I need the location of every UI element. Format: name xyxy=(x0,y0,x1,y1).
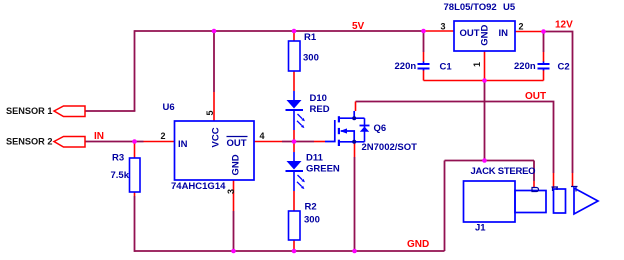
connector SENSOR1 arrow xyxy=(54,106,85,117)
wire U6 pin5 red stub xyxy=(213,92,215,121)
wire R3 top red stub xyxy=(134,142,136,159)
svg-text:OUT: OUT xyxy=(525,91,546,102)
wire jack pin1 drop red xyxy=(533,181,535,187)
wire Q6 source maroon xyxy=(354,157,356,251)
svg-text:300: 300 xyxy=(303,53,319,64)
transistor Q2 gate xyxy=(325,120,335,142)
wire R3 bottom red stub xyxy=(134,192,136,196)
capacitor C2 top plate xyxy=(538,63,550,65)
svg-text:GND: GND xyxy=(480,25,491,46)
wire Q6 drain red stub xyxy=(355,102,357,112)
svg-text:U6: U6 xyxy=(163,102,175,113)
jack pin 1 terminal glyph xyxy=(532,188,539,192)
capacitor C2 bottom plate xyxy=(538,68,550,70)
svg-text:OUT: OUT xyxy=(227,138,247,149)
wire OUT red drop to jack pin2 xyxy=(553,173,555,188)
wire D10 cathode red stub xyxy=(293,130,295,142)
wire D10 anode blue pin xyxy=(293,91,295,100)
wire SENSOR1 horizontal xyxy=(85,110,135,112)
transistor Q6 channel dash 3 xyxy=(338,140,340,146)
transistor Q6 channel dash 1 xyxy=(338,116,340,122)
IC U6 box xyxy=(175,121,255,180)
svg-text:C1: C1 xyxy=(440,62,453,73)
connector SENSOR2 arrow xyxy=(54,137,85,148)
svg-text:J1: J1 xyxy=(475,223,486,234)
jack pin 2 small box xyxy=(554,189,566,213)
wire Q6 gate red stub xyxy=(314,141,325,143)
junction IN at R3 xyxy=(132,139,137,144)
svg-text:SENSOR 1: SENSOR 1 xyxy=(6,106,52,116)
IC U5 regulator box xyxy=(454,21,515,51)
wire GND bottom rail xyxy=(135,250,445,252)
wire C1 column maroon xyxy=(423,31,425,52)
LED D10 cathode bar xyxy=(286,109,304,111)
LED D11 cathode bar xyxy=(286,170,304,172)
svg-text:2: 2 xyxy=(519,22,524,32)
junction GND rail at U6 pin3 xyxy=(231,249,236,254)
junction GND rail at R2 xyxy=(292,249,297,254)
junction 5V at R1 xyxy=(292,29,297,34)
junction GND at jack row xyxy=(482,158,487,163)
svg-text:78L05/TO92: 78L05/TO92 xyxy=(444,2,497,13)
wire R1 bottom red stub xyxy=(293,71,295,91)
resistor R2 xyxy=(289,211,301,240)
svg-text:4: 4 xyxy=(260,131,265,141)
svg-text:5V: 5V xyxy=(352,21,365,32)
transistor Q6 body diode cathode bar xyxy=(360,125,370,127)
junction 12V at C2 xyxy=(541,29,546,34)
transistor Q6 drain lead xyxy=(340,117,365,119)
svg-text:R3: R3 xyxy=(112,153,124,164)
junction Q6 drain dot xyxy=(352,116,356,120)
wire GND left column from jack row xyxy=(444,161,446,252)
capacitor C1 top plate xyxy=(418,63,430,65)
LED D11 light arrow 1 xyxy=(298,175,303,180)
svg-text:U5: U5 xyxy=(503,2,516,13)
wire D11 cathode blue pin xyxy=(293,172,295,191)
wire U6 pin3 GND maroon xyxy=(233,211,235,251)
wire 12V net xyxy=(544,32,573,174)
svg-text:C2: C2 xyxy=(558,62,570,73)
svg-text:300: 300 xyxy=(304,215,320,226)
jack J1 plug xyxy=(515,191,546,213)
capacitor C2 blue stubs xyxy=(543,62,545,71)
wire IN red stub to U6 pin 2 xyxy=(144,141,175,143)
svg-text:220n: 220n xyxy=(514,61,536,72)
wire C2 column maroon xyxy=(543,32,545,53)
junction GND rail at Q6 source xyxy=(352,249,357,254)
wire OUT row maroon mid xyxy=(282,141,314,143)
wire D10 cathode blue pin xyxy=(293,111,295,130)
svg-text:2: 2 xyxy=(161,131,166,141)
svg-text:IN: IN xyxy=(94,131,104,142)
transistor Q6 channel dash 2 xyxy=(338,128,340,134)
junction GND at U5 pin1 xyxy=(482,78,487,83)
LED D11 triangle xyxy=(287,161,302,170)
transistor Q6 body diode line xyxy=(364,118,366,142)
wire U5 pin3 red stub xyxy=(424,30,455,32)
wire U5 pin1 red stub xyxy=(484,51,486,81)
wire GND from pin1 down xyxy=(484,81,486,161)
svg-text:IN: IN xyxy=(499,28,509,39)
wire U5 pin2 red stub xyxy=(515,31,544,33)
svg-text:5: 5 xyxy=(205,110,215,115)
svg-text:2N7002/SOT: 2N7002/SOT xyxy=(362,142,418,153)
svg-text:12V: 12V xyxy=(555,20,573,31)
svg-text:3: 3 xyxy=(441,22,446,32)
wire jack pin1 drop maroon xyxy=(533,161,535,182)
svg-text:D10: D10 xyxy=(310,93,327,104)
wire C2 bottom red stub xyxy=(543,70,545,81)
pin name OUT overline xyxy=(227,136,248,138)
svg-text:SENSOR 2: SENSOR 2 xyxy=(6,137,52,147)
svg-text:D11: D11 xyxy=(306,153,324,164)
junction Q6 source dot xyxy=(352,140,356,144)
wire R2 bottom red stub xyxy=(293,240,295,251)
jack J1 body xyxy=(464,181,516,222)
wire C1 bottom red stub xyxy=(423,70,425,81)
LED D10 light arrow 1 xyxy=(298,114,303,119)
svg-text:220n: 220n xyxy=(395,61,417,72)
wire Q6 source red stub xyxy=(354,143,356,157)
wire GND jack row xyxy=(445,160,535,162)
transistor Q6 body diode triangle xyxy=(360,127,369,132)
wire OUT net xyxy=(356,102,554,174)
wire U6 pin5 vertical maroon xyxy=(213,31,215,92)
wire C1 top red stub xyxy=(423,52,425,62)
junction 5V at U6 pin5 xyxy=(212,29,217,34)
wire IN net from SENSOR2 xyxy=(85,141,144,143)
wire D11 cathode red stub xyxy=(293,191,295,211)
svg-text:GREEN: GREEN xyxy=(306,164,340,175)
svg-text:R1: R1 xyxy=(304,32,317,43)
resistor R3 xyxy=(130,158,141,192)
LED D11 light arrow 2 xyxy=(297,182,302,187)
wire 5V top rail xyxy=(135,30,424,32)
wire capacitor bottom row red xyxy=(424,80,544,82)
wire R3 bottom maroon xyxy=(134,196,136,252)
wire D11 anode blue pin xyxy=(293,152,295,161)
svg-text:74AHC1G14: 74AHC1G14 xyxy=(171,181,226,192)
transistor Q6 drain pin up xyxy=(353,111,355,118)
wire SENSOR1 riser xyxy=(134,30,136,111)
transistor Q6 body lead with arrow xyxy=(341,131,354,142)
svg-text:3: 3 xyxy=(226,189,236,194)
wire C2 top red stub xyxy=(543,52,545,62)
capacitor C1 bottom plate xyxy=(418,68,430,70)
wire 12V red drop to jack pin3 xyxy=(572,173,574,186)
svg-text:1: 1 xyxy=(472,62,482,67)
svg-text:JACK STEREO: JACK STEREO xyxy=(471,166,536,177)
wire U6 pin4 red stub xyxy=(254,141,282,143)
wire R1 top red stub xyxy=(293,31,295,41)
svg-text:IN: IN xyxy=(178,139,188,150)
svg-text:OUT: OUT xyxy=(460,28,480,39)
resistor R1 xyxy=(289,41,301,71)
junction OUT at D10 D11 xyxy=(292,139,297,144)
svg-text:Q6: Q6 xyxy=(374,123,387,134)
svg-text:VCC: VCC xyxy=(211,127,222,147)
svg-text:7.5k: 7.5k xyxy=(111,170,130,181)
jack pin 3 terminal glyph xyxy=(571,187,578,192)
transistor Q6 body arrowhead xyxy=(340,128,347,133)
jack pin 2 terminal glyph xyxy=(552,187,559,191)
svg-text:GND: GND xyxy=(231,154,242,175)
jack channel triangle xyxy=(574,188,598,214)
svg-text:RED: RED xyxy=(310,104,330,115)
LED D10 triangle xyxy=(287,100,302,109)
wire U6 pin3 red stub xyxy=(233,180,235,211)
transistor Q6 source lead xyxy=(340,141,365,143)
junction 5V at C1 xyxy=(421,29,426,34)
svg-text:GND: GND xyxy=(407,239,429,250)
svg-text:R2: R2 xyxy=(305,202,317,213)
capacitor C1 blue stubs xyxy=(423,62,425,71)
wire D11 anode red stub xyxy=(293,142,295,153)
LED D10 light arrow 2 xyxy=(297,121,302,126)
